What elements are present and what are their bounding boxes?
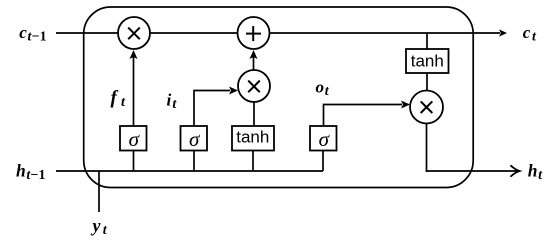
svg-text:ot: ot	[316, 78, 330, 100]
box sigma3 (output gate)	[310, 126, 337, 151]
svg-text:σ: σ	[129, 127, 141, 151]
multiply node (input gate)	[238, 70, 270, 102]
add node	[238, 17, 270, 49]
wire: output multiply node down to h_t line	[426, 124, 428, 172]
svg-text:ht: ht	[528, 161, 543, 184]
box sigma1 (forget gate)	[120, 126, 147, 151]
wire: tanh2 to output multiply node	[426, 73, 428, 91]
wire: o_t from sigma3 up and right into output multiply node	[324, 105, 403, 127]
wire: h_t output line	[426, 170, 518, 172]
wire: tanh1 bottom to h line	[252, 151, 254, 172]
box tanh2 (cell output squash)	[406, 49, 449, 73]
svg-text:it: it	[167, 91, 178, 113]
wire: c line down into tanh2	[426, 33, 428, 49]
wire: multiply node up into add node	[253, 52, 255, 70]
wire: f_t from sigma1 up into multiply node	[133, 52, 135, 126]
arrow into c_t output	[499, 29, 507, 36]
svg-text:σ: σ	[189, 127, 201, 151]
svg-text:tanh: tanh	[411, 51, 444, 70]
multiply node (output gate)	[410, 91, 443, 124]
svg-text:ct−1: ct−1	[19, 23, 46, 45]
multiply node (forget gate)	[118, 17, 150, 49]
wire: h_{t-1} horizontal line	[56, 170, 323, 172]
wire: tanh1 top to multiply node bottom	[253, 102, 255, 126]
wire: i_t from sigma2 up and right into multiply node	[194, 91, 230, 127]
svg-text:σ: σ	[319, 127, 331, 151]
box tanh1 (candidate)	[232, 126, 274, 151]
box sigma2 (input gate)	[181, 126, 208, 151]
open arrow head of h_t	[511, 166, 520, 176]
wire: c_{t-1} horizontal cell-state line	[56, 32, 500, 34]
wire: sigma2 bottom to h line	[193, 151, 195, 172]
cell body rounded box	[84, 7, 474, 188]
wire: y_t input vertical	[98, 171, 100, 212]
svg-text:ft: ft	[111, 87, 127, 110]
svg-text:ct: ct	[523, 23, 537, 45]
wire: sigma1 bottom to h line	[133, 151, 135, 172]
svg-text:yt: yt	[91, 216, 108, 239]
svg-text:tanh: tanh	[236, 128, 269, 147]
svg-text:ht−1: ht−1	[16, 160, 46, 183]
wire: sigma3 bottom to h line	[322, 151, 324, 172]
